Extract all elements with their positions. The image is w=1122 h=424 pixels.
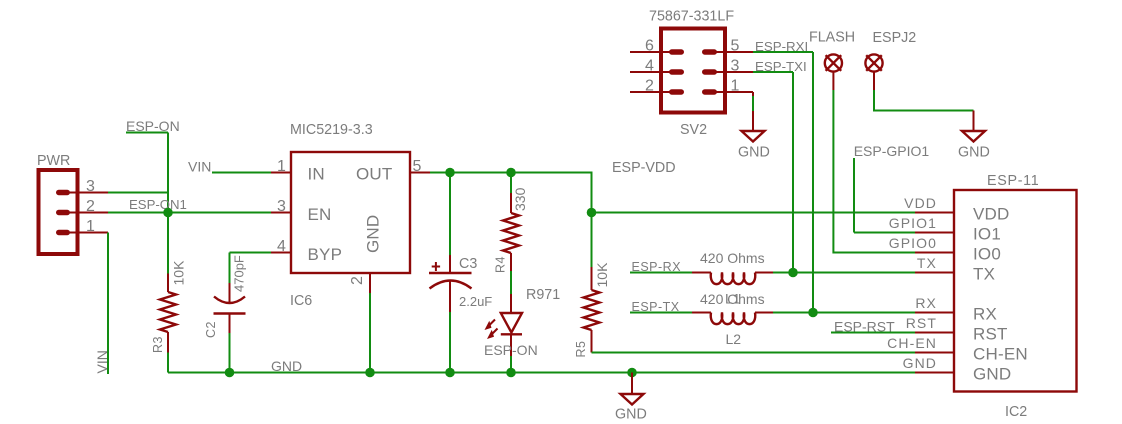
svg-text:GND: GND <box>364 215 383 253</box>
svg-text:6: 6 <box>645 38 654 55</box>
svg-text:C2: C2 <box>204 321 218 338</box>
svg-text:75867-331LF: 75867-331LF <box>649 9 734 25</box>
wire MIC pin2 to gnd rail <box>369 293 371 373</box>
svg-text:IC6: IC6 <box>290 293 312 309</box>
svg-text:GND: GND <box>958 145 990 161</box>
svg-text:2: 2 <box>86 198 95 215</box>
svg-text:420 Ohms: 420 Ohms <box>700 250 765 266</box>
svg-text:1: 1 <box>277 158 286 175</box>
svg-text:FLASH: FLASH <box>809 30 855 46</box>
svg-text:IO1: IO1 <box>973 225 1001 244</box>
pin 3 of SV2 <box>714 58 753 75</box>
pin 6 of SV2 <box>630 38 671 55</box>
svg-text:1: 1 <box>86 218 95 235</box>
pin 3 EN <box>271 198 291 215</box>
pin 3 of PWR <box>68 178 108 195</box>
wire C2 top to BYP <box>230 252 272 254</box>
svg-text:GND: GND <box>271 358 302 374</box>
wire SV2 pin1 to gnd <box>752 92 754 111</box>
pin 2 GND bottom <box>349 273 370 293</box>
svg-text:GND: GND <box>973 365 1011 384</box>
capacitor C3 polarized <box>429 173 492 373</box>
svg-text:EN: EN <box>308 205 332 224</box>
ground symbol SV2 <box>738 111 770 161</box>
wire PWR pin1 down VIN <box>107 233 109 375</box>
svg-text:GPIO1: GPIO1 <box>889 215 937 231</box>
svg-text:4: 4 <box>645 58 654 75</box>
pin 2 of SV2 <box>630 78 671 95</box>
pin CH-EN of IC2 <box>887 335 954 353</box>
pin 5 OUT <box>410 158 430 175</box>
pin 4 BYP <box>271 238 291 255</box>
junction dot LED bottom <box>506 368 516 378</box>
pin VDD of IC2 <box>904 195 954 213</box>
connector PWR <box>37 153 78 254</box>
junction dot gnd symbol <box>627 368 637 378</box>
svg-text:RX: RX <box>973 305 997 324</box>
capacitor C2 <box>204 253 247 373</box>
pin 1 of PWR <box>68 218 108 235</box>
pin 2 of PWR <box>68 198 108 215</box>
svg-text:CH-EN: CH-EN <box>973 345 1028 364</box>
svg-text:GPIO0: GPIO0 <box>889 235 937 251</box>
svg-text:R3: R3 <box>151 336 165 353</box>
svg-text:5: 5 <box>731 38 740 55</box>
svg-text:3: 3 <box>731 58 740 75</box>
svg-text:VDD: VDD <box>973 205 1010 224</box>
node VIN label <box>188 159 271 175</box>
svg-text:3: 3 <box>86 178 95 195</box>
pin 4 of SV2 <box>630 58 671 75</box>
junction dot C2 bottom <box>225 368 235 378</box>
svg-text:CH-EN: CH-EN <box>887 335 937 351</box>
svg-text:VDD: VDD <box>904 195 937 211</box>
svg-text:R5: R5 <box>574 341 588 358</box>
svg-text:BYP: BYP <box>308 245 343 264</box>
svg-text:C3: C3 <box>459 256 477 272</box>
svg-text:PWR: PWR <box>37 153 70 169</box>
pin GND of IC2 <box>903 355 954 373</box>
resistor R5 <box>574 213 610 358</box>
svg-text:TX: TX <box>917 255 937 271</box>
resistor R4 <box>494 173 529 295</box>
testpoint ESPJ2 <box>865 30 916 90</box>
node ESP-ON label <box>126 118 180 134</box>
wire L1 to TX <box>773 272 915 274</box>
svg-text:4: 4 <box>277 238 286 255</box>
resistor R3 <box>151 213 187 373</box>
node ESP-TX label <box>630 300 692 314</box>
testpoint FLASH <box>809 30 855 91</box>
pin IO1 of IC2 <box>889 215 954 233</box>
wire R5 bottom to CH-EN <box>592 352 916 354</box>
junction dot R4 top <box>506 168 516 178</box>
ground symbol on rail <box>615 373 647 423</box>
node ESP-GPIO1 label and wire <box>854 143 930 233</box>
pin IO0 of IC2 <box>889 235 954 253</box>
svg-text:TX: TX <box>973 265 995 284</box>
svg-text:5: 5 <box>413 158 422 175</box>
node ESP-RST label and wire <box>831 319 915 335</box>
wire PWR pin2 to MIC EN <box>108 212 271 214</box>
pin TX of IC2 <box>915 255 954 273</box>
LED arrows <box>488 320 498 337</box>
wire LED to rail <box>510 356 512 373</box>
svg-text:IN: IN <box>308 165 325 184</box>
inductor L2 <box>692 291 773 347</box>
junction dot MIC pin2 bottom <box>365 368 375 378</box>
pin RST of IC2 <box>906 315 954 333</box>
svg-text:1: 1 <box>731 78 740 95</box>
junction dot C3 bottom <box>445 368 455 378</box>
svg-text:GND: GND <box>738 145 770 161</box>
svg-text:2: 2 <box>645 78 654 95</box>
junction dot at (168,212.5) <box>163 208 173 218</box>
svg-text:470pF: 470pF <box>232 255 247 292</box>
wire FLASH to GPIO0 <box>833 90 915 253</box>
pin 5 of SV2 <box>714 38 753 55</box>
svg-text:ESP-VDD: ESP-VDD <box>612 160 676 176</box>
svg-text:ESP-ON: ESP-ON <box>484 342 538 358</box>
pin 1 of SV2 <box>714 78 753 95</box>
svg-text:2: 2 <box>349 276 366 285</box>
pin RX of IC2 <box>915 295 954 313</box>
svg-text:330: 330 <box>512 187 528 211</box>
svg-text:IC2: IC2 <box>1005 404 1027 420</box>
wire OUT rail ESP-VDD <box>430 173 915 213</box>
wire GND rail <box>168 372 915 374</box>
svg-text:3: 3 <box>277 198 286 215</box>
svg-text:VIN: VIN <box>188 159 211 175</box>
svg-text:R971: R971 <box>526 287 560 303</box>
inductor L1 <box>692 250 773 307</box>
svg-text:420 Ohms: 420 Ohms <box>700 291 765 307</box>
junction dot TX row <box>788 268 798 278</box>
wire vertical ESP-ON <box>167 133 169 213</box>
svg-text:L2: L2 <box>726 331 742 347</box>
junction dot RX row <box>808 308 818 318</box>
svg-text:GND: GND <box>903 355 937 371</box>
svg-text:10K: 10K <box>594 262 610 288</box>
svg-text:OUT: OUT <box>356 165 392 184</box>
pin 1 IN <box>271 158 291 175</box>
IC2 ESP-11 body <box>954 173 1077 420</box>
LED R971 <box>485 287 561 356</box>
junction dot R5 top <box>587 208 597 218</box>
svg-text:RX: RX <box>915 295 937 311</box>
svg-text:R4: R4 <box>494 256 508 273</box>
svg-text:RST: RST <box>906 315 937 331</box>
node ESP-RXI label and wire <box>753 39 813 313</box>
svg-text:ESPJ2: ESPJ2 <box>873 30 917 46</box>
wire ESPJ2 to gnd <box>874 90 974 111</box>
op-amp U IC6 MIC5219-3.3 body <box>290 122 410 309</box>
wire PWR pin3 to ESP-ON vertical <box>108 192 168 194</box>
svg-text:MIC5219-3.3: MIC5219-3.3 <box>290 122 373 138</box>
svg-text:10K: 10K <box>171 260 187 286</box>
ground symbol ESPJ2 <box>958 111 990 161</box>
svg-text:ESP-GPIO1: ESP-GPIO1 <box>854 143 930 159</box>
junction dot C3 top <box>445 168 455 178</box>
svg-text:ESP-ON1: ESP-ON1 <box>129 197 187 212</box>
svg-text:RST: RST <box>973 325 1008 344</box>
svg-text:IO0: IO0 <box>973 245 1001 264</box>
wire L2 to RX <box>773 312 915 314</box>
node ESP-RX label <box>630 260 692 274</box>
svg-text:GND: GND <box>615 407 647 423</box>
svg-text:2.2uF: 2.2uF <box>459 294 492 309</box>
svg-text:ESP-11: ESP-11 <box>987 173 1039 189</box>
svg-text:VIN: VIN <box>94 350 110 373</box>
svg-text:SV2: SV2 <box>680 122 707 138</box>
connector SV2 <box>649 9 734 139</box>
node ESP-TXI label and wire <box>753 59 807 273</box>
